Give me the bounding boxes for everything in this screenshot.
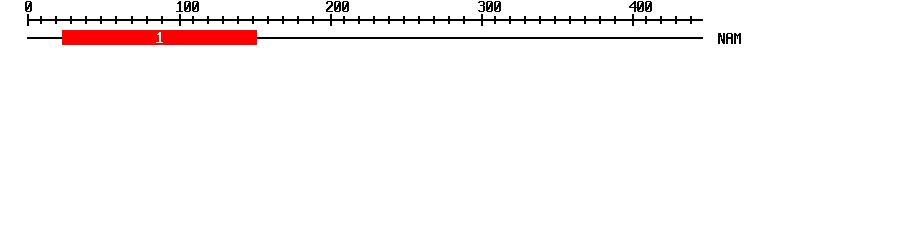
major tick 0 [27,14,29,26]
minor ticks 300-400 [494,16,616,24]
ruler baseline [27,19,703,21]
major tick 200 [330,14,332,26]
minor ticks 0-100 [40,16,163,24]
minor ticks 400-440 [645,16,692,24]
major tick 300 [481,14,483,26]
feature box 1 (red) [62,30,257,45]
feature label 1 (white) [156,32,163,43]
major tick 400 [632,14,634,26]
tick label 400 [629,1,652,12]
minor ticks 100-200 [192,16,314,24]
track name label NAM [718,33,741,44]
major tick 100 [179,14,181,26]
tick label 200 [326,1,349,12]
tick label 300 [478,1,501,12]
track line (feature row) [27,37,703,39]
minor ticks 200-300 [343,16,465,24]
tick label 100 [176,1,199,12]
tick label 0 [25,1,32,12]
